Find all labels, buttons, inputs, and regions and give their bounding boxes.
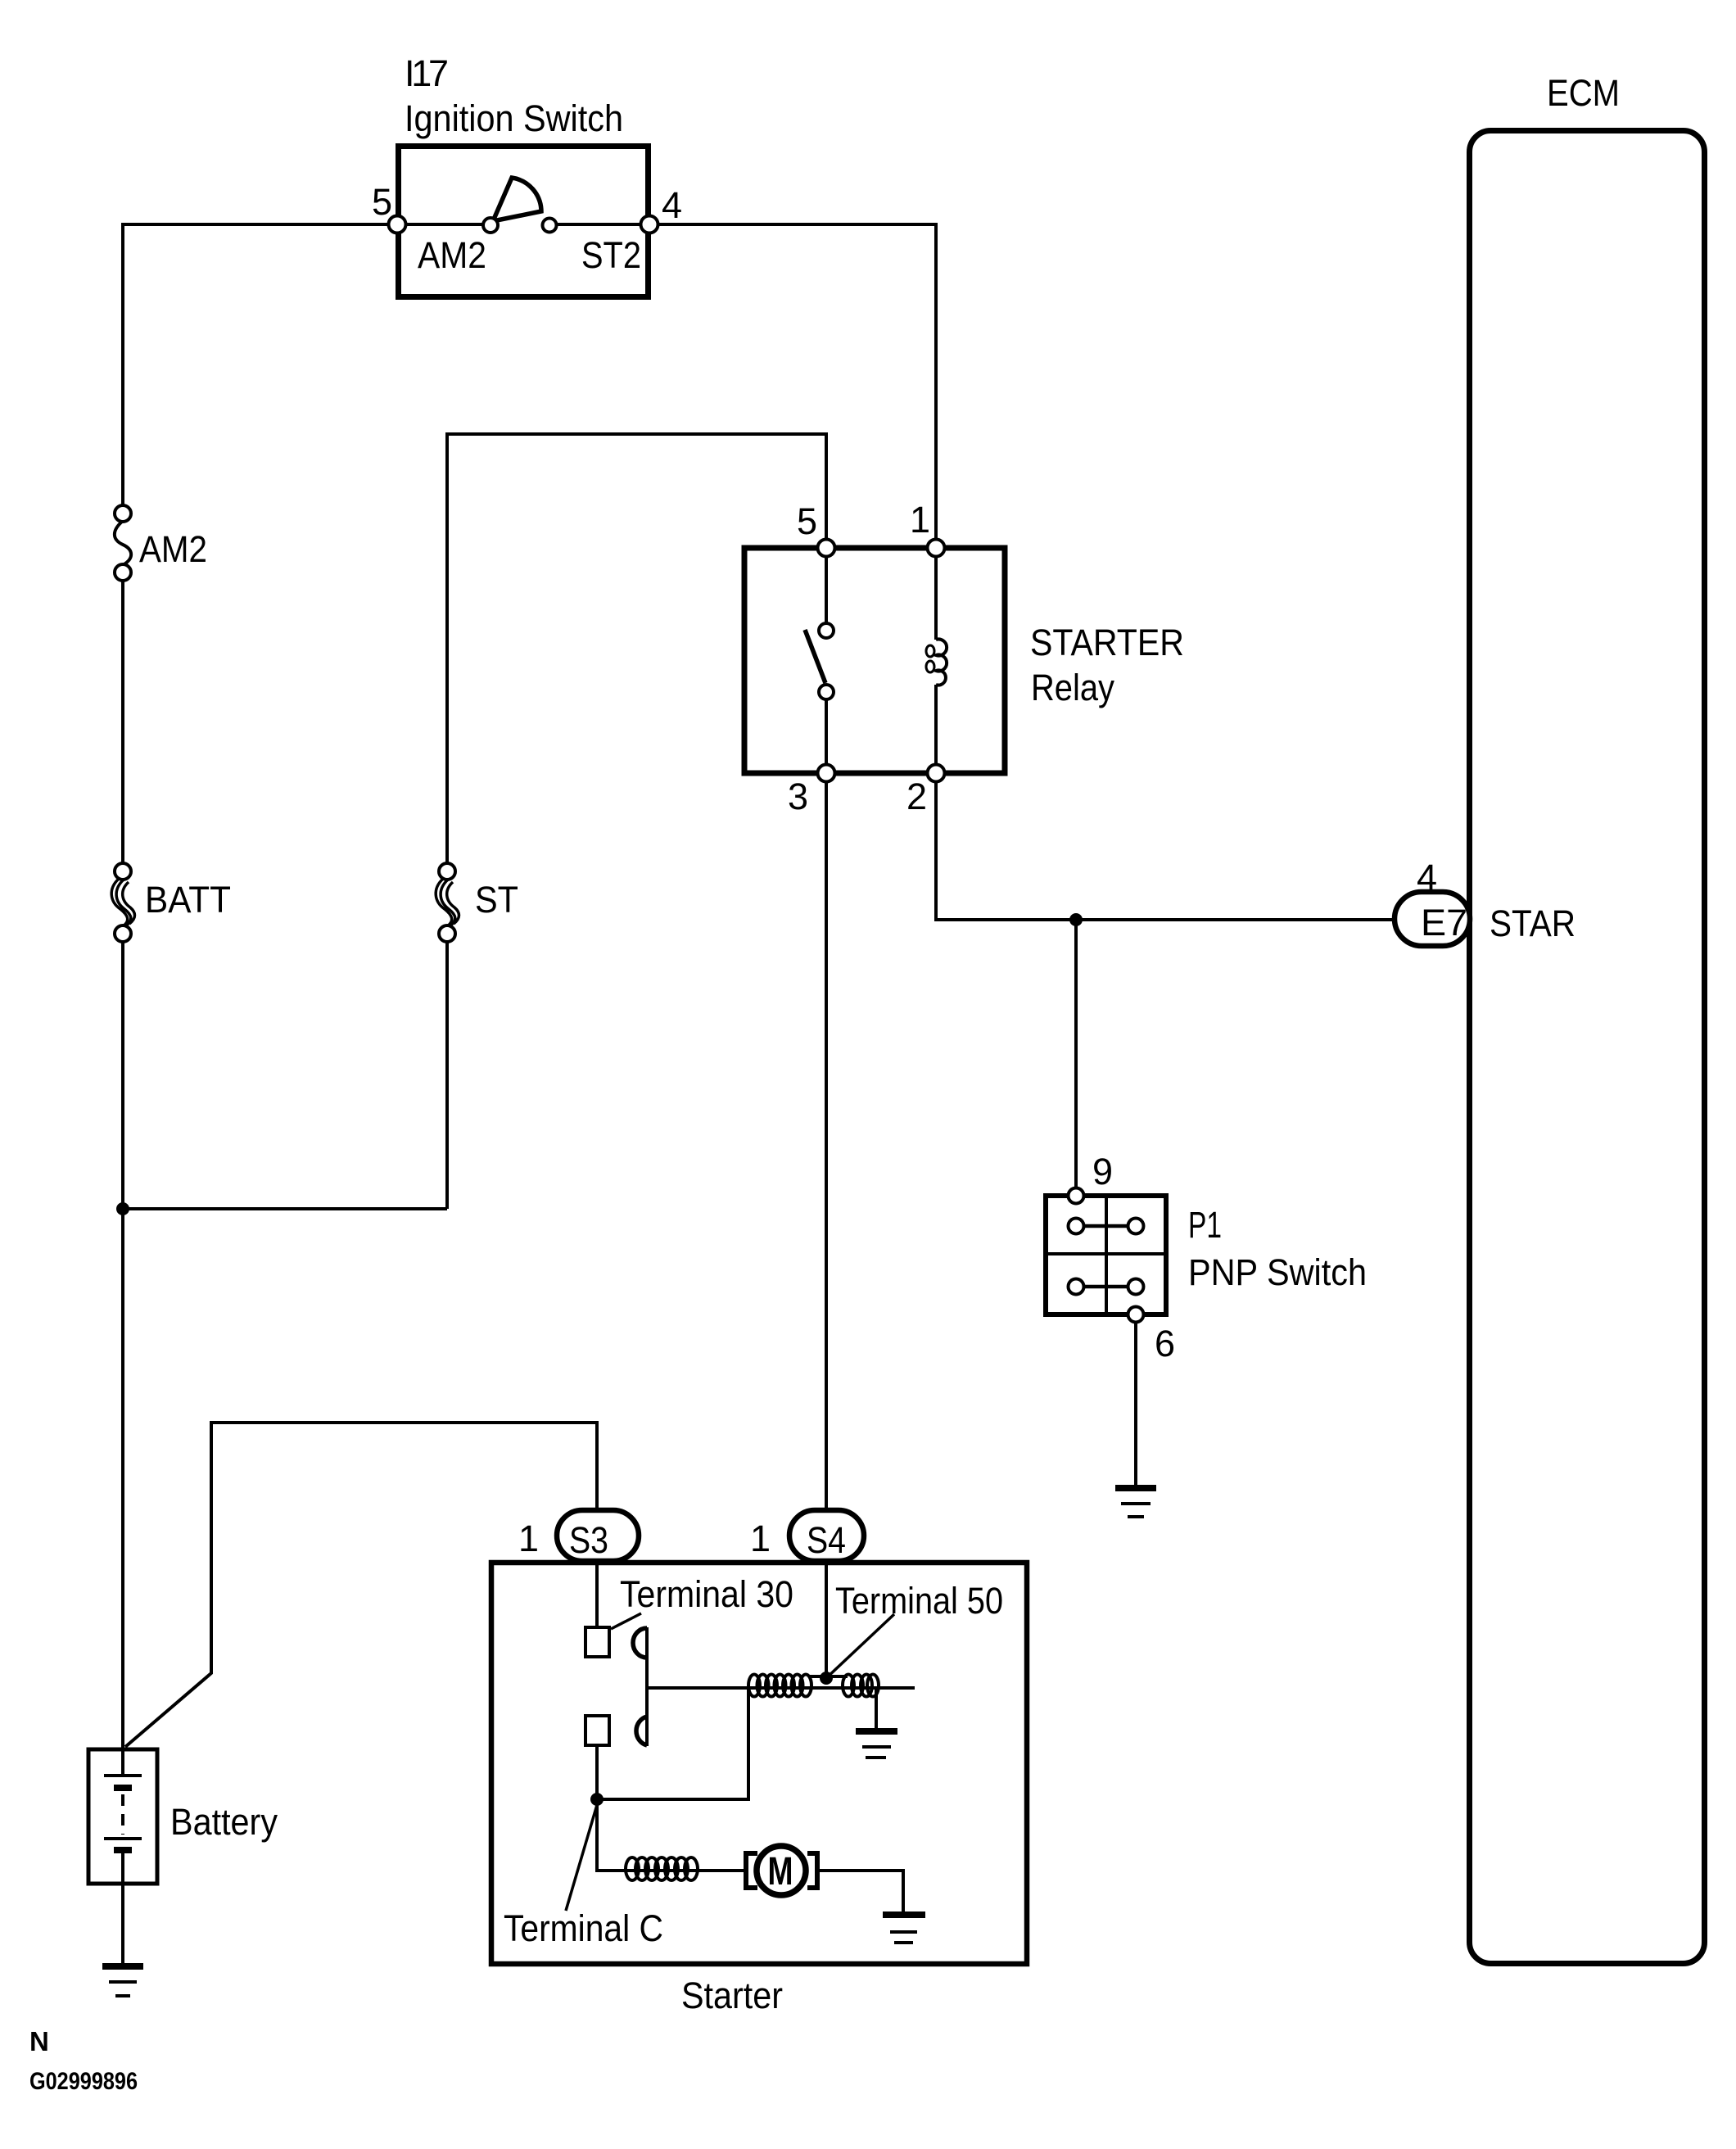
svg-text:ST: ST <box>475 879 518 921</box>
svg-text:Starter: Starter <box>681 1975 783 2016</box>
svg-text:5: 5 <box>372 181 392 223</box>
svg-text:AM2: AM2 <box>139 528 207 570</box>
svg-text:9: 9 <box>1092 1151 1113 1192</box>
svg-text:Battery: Battery <box>170 1801 278 1843</box>
svg-text:1: 1 <box>518 1518 539 1559</box>
svg-text:Ignition Switch: Ignition Switch <box>405 97 623 139</box>
svg-text:STARTER: STARTER <box>1030 622 1184 663</box>
svg-text:Terminal 50: Terminal 50 <box>835 1580 1003 1622</box>
svg-text:M: M <box>768 1850 793 1893</box>
svg-text:P1: P1 <box>1188 1204 1222 1246</box>
svg-text:1: 1 <box>750 1518 771 1559</box>
svg-text:AM2: AM2 <box>418 234 486 276</box>
svg-text:3: 3 <box>788 776 808 817</box>
svg-text:I17: I17 <box>405 52 449 94</box>
svg-text:STAR: STAR <box>1490 903 1576 944</box>
svg-text:E7: E7 <box>1421 902 1467 943</box>
svg-text:4: 4 <box>1417 857 1437 898</box>
svg-text:S4: S4 <box>807 1519 846 1561</box>
svg-text:4: 4 <box>662 184 682 226</box>
svg-text:N: N <box>29 2026 49 2056</box>
svg-text:Terminal C: Terminal C <box>504 1907 663 1949</box>
svg-text:ECM: ECM <box>1547 72 1620 114</box>
svg-text:PNP Switch: PNP Switch <box>1188 1251 1367 1293</box>
svg-text:1: 1 <box>910 499 930 541</box>
svg-text:2: 2 <box>906 776 927 817</box>
svg-text:6: 6 <box>1155 1323 1175 1364</box>
svg-text:5: 5 <box>797 500 817 542</box>
svg-text:G02999896: G02999896 <box>29 2068 138 2095</box>
svg-text:S3: S3 <box>569 1519 608 1561</box>
svg-text:Relay: Relay <box>1031 667 1114 708</box>
svg-text:BATT: BATT <box>145 879 231 921</box>
svg-text:Terminal 30: Terminal 30 <box>620 1573 793 1615</box>
svg-text:ST2: ST2 <box>581 234 641 276</box>
